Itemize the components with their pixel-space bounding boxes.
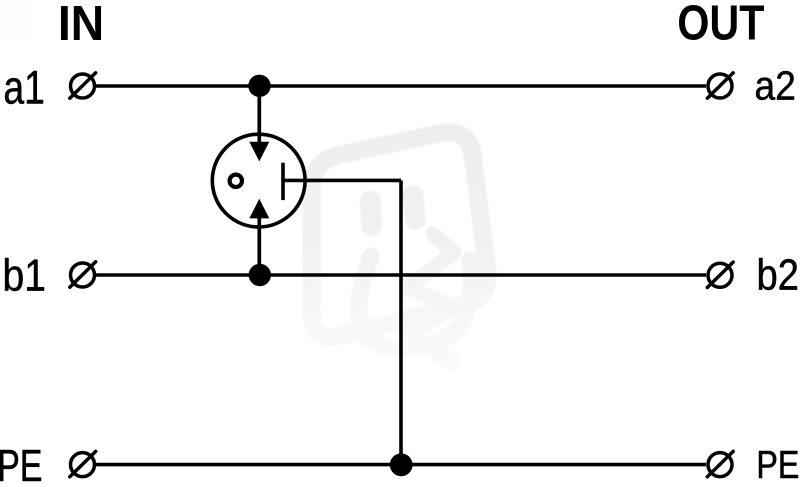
junction dot a-line [248, 75, 270, 97]
terminal PE right [707, 451, 733, 476]
wire down to PE [399, 180, 403, 464]
watermark bolt tail [413, 337, 452, 362]
terminal PE left [70, 451, 96, 476]
terminal a2 [707, 73, 733, 98]
junction dot b-line [249, 264, 271, 286]
center electrode bar [281, 163, 285, 200]
label OUT [679, 5, 764, 40]
watermark logo (light gray smiley plug in rounded square) [311, 132, 487, 362]
watermark right prong [401, 184, 427, 231]
arrow up (bottom electrode) [249, 199, 269, 219]
arrow down (top electrode) [249, 142, 269, 162]
arrester circle U1 [212, 134, 305, 227]
wire electrode out [283, 179, 401, 183]
label PE right [759, 451, 798, 478]
watermark bolt [407, 234, 457, 333]
gas indicator small circle [230, 175, 242, 187]
label a2 [756, 71, 794, 100]
terminal b1 [70, 262, 96, 287]
wire a1-a2 [96, 84, 706, 88]
watermark smile [359, 256, 471, 349]
watermark left prong [359, 190, 382, 236]
label a1 [5, 71, 43, 104]
label b1 [5, 258, 44, 291]
label IN [61, 6, 101, 40]
terminal a1 [70, 73, 96, 98]
wire b-line to arrester [257, 215, 261, 275]
label b2 [759, 258, 797, 290]
watermark frame [311, 132, 487, 337]
wire b1-b2 [96, 273, 706, 277]
label PE left [0, 450, 41, 481]
faint jpeg block top-left [0, 0, 28, 40]
wire a-line to arrester [257, 86, 261, 146]
junction dot PE-line [390, 453, 413, 476]
wire PE-PE [96, 463, 706, 467]
terminal b2 [707, 262, 733, 287]
